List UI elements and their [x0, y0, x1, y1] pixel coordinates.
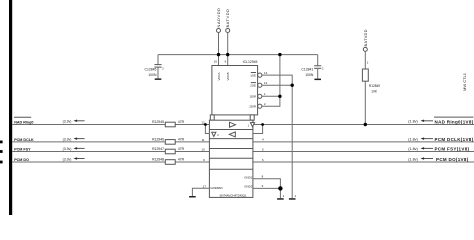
svg-text:VCCA: VCCA: [217, 72, 221, 80]
svg-text:(3.3v): (3.3v): [63, 137, 72, 141]
arrow line1 right: [421, 120, 434, 123]
svg-text:GNDPAD: GNDPAD: [210, 186, 222, 190]
junction rail DIR feed: [278, 53, 281, 56]
power terminal NADVDD: [216, 8, 221, 66]
svg-text:C12845: C12845: [145, 67, 157, 71]
svg-text:16: 16: [214, 60, 218, 64]
svg-text:(3.3v): (3.3v): [63, 120, 72, 124]
buffer B to A channel 1: [229, 132, 235, 137]
power terminal BATVDD: [225, 9, 230, 66]
buffer A to B channel 1: [230, 122, 236, 127]
power rail VCC: [158, 54, 318, 56]
resistor R12945: [152, 120, 185, 127]
ground at C12841: [314, 79, 321, 81]
svg-text:R12946: R12946: [152, 137, 164, 141]
arrow line1 left: [74, 120, 85, 123]
svg-text:NAD Ring0(1V8): NAD Ring0(1V8): [435, 120, 474, 125]
svg-text:(1.8v): (1.8v): [408, 147, 417, 151]
wire net PCM_FSY left segment: [12, 151, 209, 153]
resistor R12948: [152, 157, 185, 164]
svg-text:100N: 100N: [305, 73, 314, 77]
capacitor C12845: [145, 55, 165, 79]
capacitor C12841: [301, 55, 324, 79]
net label NAD_Ring0: [14, 117, 33, 124]
arrow line3 left: [74, 147, 85, 150]
svg-text:R12947: R12947: [152, 147, 164, 151]
svg-text:NAD Ring0: NAD Ring0: [14, 121, 33, 125]
pin bubble 1DIR: [258, 94, 262, 98]
IC lower channel section SN74AVCH4T245: [209, 120, 253, 197]
svg-text:2OE: 2OE: [250, 83, 256, 87]
svg-text:10: 10: [201, 147, 205, 151]
junction 2OE: [291, 84, 294, 87]
svg-text:10K: 10K: [371, 89, 378, 93]
svg-text:1OE: 1OE: [250, 73, 256, 77]
wire GND1: [253, 179, 281, 198]
wire stub PCM_DO at sheet edge: [0, 161, 3, 164]
wire net PCM_FSY(1V8) right segment: [253, 151, 474, 153]
junction channel1 B: [261, 123, 264, 126]
svg-text:PCM DO: PCM DO: [14, 158, 29, 162]
sheet border bar: [9, 0, 12, 215]
junction GND: [278, 186, 282, 190]
op IC upper control section U12945: [212, 60, 258, 115]
svg-text:GND1: GND1: [244, 175, 252, 179]
svg-text:11: 11: [202, 138, 205, 142]
svg-text:47R: 47R: [178, 137, 185, 141]
svg-text:PCM FSY: PCM FSY: [14, 148, 31, 152]
wire pull-up to NAD_Ring0(1V8): [364, 81, 366, 124]
resistor R12849 pull-up: [362, 69, 380, 93]
svg-text:13: 13: [264, 71, 268, 75]
resistor R12947: [152, 147, 185, 154]
wire net NAD_Ring0(1V8) right segment: [253, 124, 474, 126]
svg-text:47R: 47R: [178, 157, 185, 161]
ground at C12845: [155, 78, 162, 80]
svg-text:PCM FSY(1V8): PCM FSY(1V8): [435, 147, 470, 152]
arrow line4 left: [74, 157, 85, 160]
bracket channel1 A side: [205, 125, 209, 134]
arrow line3 right: [421, 147, 434, 150]
wire net PCM_DCLK(1V8) right segment: [253, 141, 474, 143]
svg-text:2DIR: 2DIR: [249, 104, 256, 108]
junction channel1 A: [204, 123, 207, 126]
IC section connector tab right: [250, 115, 254, 120]
svg-text:17: 17: [203, 184, 207, 188]
bracket channel1 B side: [253, 125, 263, 134]
pin bubble 1OE: [258, 73, 262, 77]
svg-text:BATVDD: BATVDD: [364, 29, 368, 46]
pin bubble 2OE: [258, 83, 262, 87]
svg-text:PCM DCLK(1V8): PCM DCLK(1V8): [435, 137, 474, 142]
wire 2OE to ground rail: [262, 84, 292, 86]
junction 1DIR: [278, 95, 281, 98]
svg-text:47R: 47R: [178, 147, 185, 151]
svg-text:MW CTL1: MW CTL1: [462, 72, 467, 91]
net label NAD_Ring0(1V8): [434, 117, 474, 125]
svg-text:BATVDD: BATVDD: [225, 9, 230, 28]
wire GNDPAD: [192, 188, 209, 196]
arrow line2 left: [74, 137, 85, 140]
svg-text:NADVDD: NADVDD: [216, 8, 221, 28]
svg-text:(1.8v): (1.8v): [408, 137, 417, 141]
wire 1DIR tap: [262, 95, 280, 97]
svg-text:R12948: R12948: [152, 157, 164, 161]
svg-text:(1.8v): (1.8v): [408, 120, 417, 124]
ground at GND pins: [277, 194, 285, 200]
IC section connector tab left: [210, 115, 214, 120]
pin bubble 2DIR: [258, 104, 262, 108]
resistor R12946: [152, 137, 185, 144]
junction on rail at VCCA feed: [217, 53, 220, 56]
wire 1OE to ground rail: [262, 75, 292, 198]
wire stub PCM_DCLK at sheet edge: [0, 141, 3, 144]
wire net NAD_Ring0 left segment: [12, 124, 209, 126]
svg-text:14: 14: [264, 81, 268, 85]
svg-text:VCCB: VCCB: [226, 72, 230, 80]
svg-text:1DIR: 1DIR: [249, 95, 256, 99]
wire net PCM_DO left segment: [12, 161, 209, 163]
svg-text:PCM DO(1V8): PCM DO(1V8): [436, 157, 469, 162]
arrow line4 right: [421, 157, 434, 160]
svg-text:(3.3v): (3.3v): [63, 158, 72, 162]
wire stub PCM_FSY at sheet edge: [0, 150, 3, 153]
svg-text:12: 12: [201, 120, 205, 124]
wire net PCM_DCLK left segment: [12, 141, 209, 143]
svg-text:(3.3v): (3.3v): [63, 147, 72, 151]
power terminal BATVDD pull-up branch: [363, 29, 369, 69]
svg-text:ICL12945: ICL12945: [243, 60, 258, 64]
svg-text:SN74AVCH4T245Q1: SN74AVCH4T245Q1: [219, 194, 246, 198]
wire net PCM_DO(1V8) right segment: [253, 161, 474, 163]
direction mark channel 1: [248, 123, 255, 128]
wire GND2: [253, 187, 281, 189]
svg-text:PCM DCLK: PCM DCLK: [14, 138, 34, 142]
ground at OE rail: [289, 194, 297, 200]
svg-text:100N: 100N: [148, 73, 157, 77]
svg-text:GND2: GND2: [244, 185, 252, 189]
svg-text:(1.8v): (1.8v): [408, 158, 417, 162]
wire VCC to DIR pins: [262, 55, 280, 107]
svg-text:R12849: R12849: [369, 84, 380, 88]
junction on rail at VCCB feed: [226, 53, 229, 56]
svg-text:47R: 47R: [178, 120, 185, 124]
svg-text:C12841: C12841: [301, 68, 313, 72]
direction mark channel 1 B side: [212, 132, 220, 137]
ground at GNDPAD: [189, 196, 196, 198]
junction pull-up on net: [364, 123, 367, 126]
svg-text:R12945: R12945: [152, 120, 164, 124]
arrow line2 right: [421, 137, 434, 140]
